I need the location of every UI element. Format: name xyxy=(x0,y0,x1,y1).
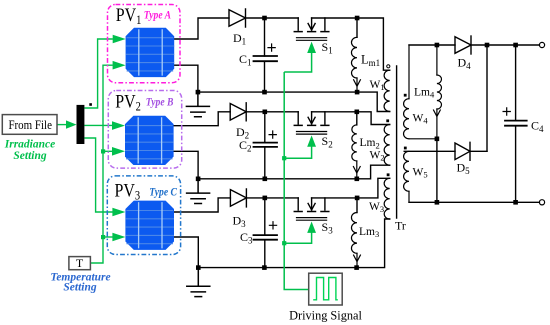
wire branch PV3 temperature xyxy=(103,236,113,238)
wire PV1 minus down xyxy=(174,65,198,92)
arrow PV3 temperature xyxy=(112,233,125,242)
capacitor C4 xyxy=(505,45,527,202)
diode D5 xyxy=(455,142,487,160)
junction D4 cathode node xyxy=(485,43,490,48)
capacitor C1 xyxy=(254,18,278,92)
wire D1 to S1 xyxy=(265,17,299,19)
junction D3-C3 node xyxy=(263,196,268,201)
block From File xyxy=(2,115,57,135)
wire S3 to Lm3 xyxy=(312,197,357,199)
transformer core xyxy=(396,66,398,218)
junction Lm2 bottom rail2 xyxy=(355,177,360,182)
wire PV3 plus to D3 anode xyxy=(174,198,230,212)
junction C3 bottom rail3 xyxy=(262,265,267,270)
gate arrow S3 xyxy=(284,222,316,244)
wire rail3 xyxy=(198,219,389,268)
winding W3 xyxy=(384,178,390,219)
inductor Lm1 xyxy=(351,37,357,78)
ground G2 xyxy=(187,179,210,204)
plus sign C2 xyxy=(269,131,276,138)
PV2 panel icon xyxy=(125,116,174,165)
svg-text:Setting: Setting xyxy=(63,281,96,293)
wire Lm1 bottom with arrow xyxy=(354,78,361,92)
arrow into demux xyxy=(66,120,77,128)
wire Lm3 bottom with arrow xyxy=(354,253,361,267)
capacitor C2 xyxy=(254,112,278,179)
wire temperature bus vertical xyxy=(103,65,113,237)
svg-text:Irradiance: Irradiance xyxy=(4,139,55,151)
junction Lm1 bottom rail1 xyxy=(355,90,360,95)
arrow PV3 irradiance xyxy=(112,208,125,217)
wire PV3 minus down xyxy=(174,237,198,268)
wire demux out3 to PV3 irradiance xyxy=(84,138,112,212)
wire T to temperature bus xyxy=(90,237,103,263)
PV1 panel icon xyxy=(126,28,175,77)
junction W4-Lm4 node xyxy=(435,137,440,142)
svg-text:Type A: Type A xyxy=(144,10,171,22)
arrow PV2 temperature xyxy=(112,147,125,156)
wire S1 to Lm1 xyxy=(312,17,357,19)
wire demux out2 to PV2 irradiance xyxy=(84,124,112,126)
block Driving Signal source xyxy=(309,273,343,305)
winding W5 xyxy=(404,151,409,202)
wire Lm3 top stub xyxy=(356,198,358,213)
wire rail2 xyxy=(198,165,390,179)
plus sign C4 xyxy=(503,108,510,115)
junction D2-C2 node xyxy=(263,110,268,115)
winding W2 xyxy=(384,125,390,166)
wire secondary bottom rail xyxy=(409,201,539,203)
ground G1 xyxy=(186,92,209,117)
annotation dot near demux xyxy=(89,103,92,106)
mosfet S2 xyxy=(294,112,329,134)
diode D3 xyxy=(230,189,264,207)
junction Lm4 top xyxy=(435,43,440,48)
block T constant xyxy=(69,256,91,270)
gate arrow S1 xyxy=(284,42,316,72)
junction PV1 minus rail1 xyxy=(196,90,201,95)
diode D4 xyxy=(455,36,471,54)
junction Lm1 top xyxy=(355,16,360,21)
svg-text:Setting: Setting xyxy=(13,150,46,162)
PV2 block border xyxy=(108,91,181,169)
wire Lm4 junction to bottom rail xyxy=(436,139,438,203)
junction C4 bottom xyxy=(513,200,518,205)
wire row3 top to W3 xyxy=(357,178,390,198)
inductor Lm2 xyxy=(352,125,357,161)
junction temperature bus to PV3 xyxy=(101,235,105,239)
winding W1 xyxy=(384,70,390,111)
inductor Lm3 xyxy=(351,213,357,254)
junction secondary bottom rail xyxy=(435,200,440,205)
gate drive bus vertical xyxy=(284,72,309,290)
polarity mark W3 xyxy=(387,173,390,176)
wire PV2 minus down xyxy=(174,151,199,179)
wire Lm2 bottom with arrow xyxy=(353,161,360,179)
wire S2 to Lm2 xyxy=(312,111,357,113)
polarity mark W4 xyxy=(404,94,407,97)
junction PV3 minus rail3 xyxy=(196,265,201,270)
inductor Lm4 xyxy=(434,45,442,139)
PV3 panel icon xyxy=(125,201,174,250)
svg-text:Driving Signal: Driving Signal xyxy=(289,309,362,323)
wire D5 anode line xyxy=(404,150,455,152)
wire demux out1 to PV1 irradiance xyxy=(84,39,113,108)
wire PV2 plus to D2 anode xyxy=(174,112,231,126)
PV1 block border xyxy=(108,5,181,83)
mosfet S3 xyxy=(294,198,329,220)
wire branch PV2 temperature xyxy=(103,150,112,152)
junction Lm3 top xyxy=(355,196,360,201)
svg-text:T: T xyxy=(76,256,84,270)
wire secondary top rail xyxy=(409,44,539,46)
svg-text:From File: From File xyxy=(8,118,52,132)
wire D4 cathode to D5 cathode xyxy=(486,45,488,151)
wire row2 top to W2 xyxy=(357,112,390,125)
junction C2 bottom rail2 xyxy=(263,177,268,182)
junction temperature bus to PV2 xyxy=(101,149,105,153)
arrow PV1 irradiance xyxy=(113,35,126,44)
capacitor C3 xyxy=(254,198,278,268)
junction Lm2 top xyxy=(355,110,360,115)
polarity mark W5 xyxy=(404,147,407,150)
wire row1 top to W1 xyxy=(357,18,390,70)
PV3 block border xyxy=(107,176,180,255)
junction Lm3 bottom rail3 xyxy=(354,265,359,270)
junction D1-C1 node xyxy=(262,16,267,21)
diode D1 xyxy=(229,9,265,27)
wire D2 to S2 xyxy=(265,111,298,113)
terminal output minus xyxy=(539,200,544,205)
terminal output plus xyxy=(539,42,544,47)
wire Lm1 top stub xyxy=(356,18,358,37)
demux selector bar xyxy=(77,105,85,144)
mosfet S1 xyxy=(294,18,329,40)
junction gate bus to S3 xyxy=(282,241,286,245)
junction C1 bottom rail1 xyxy=(262,90,267,95)
arrow PV1 temperature xyxy=(113,61,126,70)
junction C4 top xyxy=(513,43,518,48)
junction PV2 minus rail2 xyxy=(196,177,201,182)
wire From File to demux xyxy=(57,124,66,126)
winding W4 xyxy=(404,45,437,139)
ground G3 xyxy=(187,268,210,297)
polarity mark W1 xyxy=(387,65,390,68)
diode D2 xyxy=(230,103,265,121)
plus sign C3 xyxy=(269,222,276,229)
junction gate bus to S2 xyxy=(282,156,286,160)
gate arrow S2 xyxy=(284,135,316,158)
svg-text:Type C: Type C xyxy=(149,187,178,199)
wire D3 to S3 xyxy=(265,197,298,199)
arrow PV2 irradiance xyxy=(112,121,125,130)
wire Lm2 top stub xyxy=(356,112,358,125)
plus sign C1 xyxy=(268,44,275,51)
polarity mark W2 xyxy=(386,119,389,122)
wire rail1 xyxy=(198,92,390,111)
wire PV1 plus to D1 anode xyxy=(174,18,229,39)
svg-text:Tr: Tr xyxy=(395,219,406,233)
svg-text:Type B: Type B xyxy=(146,97,174,109)
